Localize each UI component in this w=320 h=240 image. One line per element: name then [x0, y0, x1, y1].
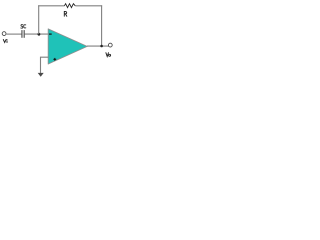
wire feedback top right segment	[75, 5, 102, 7]
node junction dot (feedback tap)	[38, 33, 41, 36]
ground (arrow)	[38, 73, 44, 77]
op-amp U1	[48, 29, 87, 64]
capacitor SC	[22, 30, 24, 38]
wire feedback vertical right	[101, 5, 103, 46]
wire capacitor to op-amp inverting input	[25, 33, 49, 35]
resistor R	[64, 4, 75, 8]
wire feedback vertical left	[38, 5, 40, 34]
plus sign (non-inverting input)	[53, 58, 56, 61]
output terminal Vo	[108, 43, 112, 47]
wire feedback top left segment	[38, 5, 64, 7]
label R	[64, 11, 67, 16]
label Vo	[106, 53, 111, 57]
wire non-inverting input to ground	[41, 57, 49, 73]
label SC	[21, 25, 26, 29]
wire input to capacitor	[6, 33, 21, 35]
node output junction dot	[100, 45, 103, 48]
label Vi	[3, 40, 7, 43]
input terminal Vi	[2, 32, 6, 36]
wire output	[87, 45, 109, 47]
minus sign (inverting input)	[49, 33, 52, 35]
